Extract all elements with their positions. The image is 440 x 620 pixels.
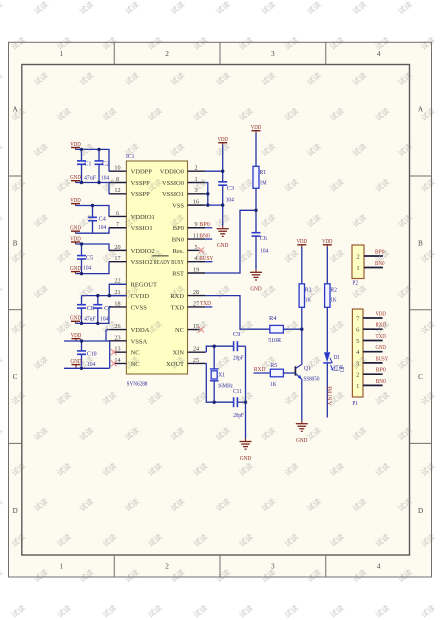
power port VDD (C3 rail)	[218, 136, 229, 145]
pin 26 VDDA (left)	[109, 323, 150, 334]
pin 12 VSSPP (left)	[109, 187, 150, 198]
net label TXD on pin 27	[200, 300, 212, 307]
wire load-cap ground rail	[245, 346, 247, 438]
inner border	[22, 65, 410, 556]
P1 pin 7 with net label VDD	[356, 310, 386, 322]
wire VDD rail to pin 6	[76, 206, 110, 217]
wire pin 2 to VDD rail	[205, 170, 223, 172]
wire D1 cathode with rotated net label BUSY	[326, 363, 333, 418]
power port VDD (group C4)	[70, 197, 81, 206]
P1 pin 3 with net label BUSY	[356, 355, 389, 367]
ground symbol (C6)	[250, 269, 262, 292]
pin 27 TXD (right)	[171, 300, 205, 311]
pin 25 XOUT (right)	[166, 357, 205, 368]
pin 28 RXD (right)	[170, 289, 205, 300]
wire R5 to Q1 base	[283, 372, 295, 374]
P1 pin 4 with net label GND	[356, 344, 386, 356]
power port GND (group C7/C8)	[70, 315, 81, 324]
connector P2 body	[352, 245, 364, 279]
wire VDD to R3	[301, 247, 303, 284]
wire VDD rail pin23/pin26	[64, 330, 110, 341]
wire VDD rail to pin 10	[76, 149, 110, 171]
resistor R5 1K	[270, 362, 283, 388]
junction dots crystal	[213, 345, 248, 404]
capacitor C10	[77, 341, 97, 368]
P1 pin 6 with net label RXD	[356, 322, 386, 334]
wire GND rail group 5	[64, 341, 110, 368]
wire GND rail to pin 7	[76, 228, 110, 233]
pin 8 VSSPP (left)	[109, 176, 150, 187]
wire pin 28 RXD to R4	[205, 296, 270, 330]
power port VDD (group C1/C2)	[70, 141, 81, 150]
connector P1 body	[352, 309, 363, 397]
wire Q1 emitter to ground	[301, 379, 303, 420]
capacitor C6	[252, 210, 270, 269]
capacitor C7	[93, 296, 111, 324]
pin 14 NC (left)	[111, 357, 140, 368]
crystal X1 16MHz	[210, 346, 233, 402]
wire pin 4 with net label BUSY	[199, 255, 213, 262]
junction dots C5	[80, 242, 83, 275]
pin 9 BP0 (right)	[173, 221, 205, 232]
capacitor C4	[88, 206, 107, 234]
wire pin 22 to CVDD rail	[109, 284, 126, 295]
wire GND rail to pin 18	[76, 307, 109, 323]
wire pin 9 with net label BP0	[199, 221, 212, 228]
wire pins 1/3 tie	[205, 183, 208, 206]
power port VDD (group C10)	[71, 332, 82, 341]
wire GND rail to pins 8 and 12	[76, 183, 110, 194]
pin 4 READY/BUSY (right)	[152, 255, 205, 266]
P2 pin 2 with net label BP0	[356, 248, 384, 260]
pin 13 NC (left)	[111, 346, 140, 357]
wire pin 11 with net label BN0	[199, 232, 212, 239]
capacitor C3	[218, 182, 234, 226]
pin 3 VSSIO1 (right)	[162, 187, 205, 198]
ground symbol (crystal caps)	[240, 439, 252, 462]
IC1 designator label	[126, 153, 134, 160]
junction dots group 1	[80, 148, 101, 185]
junction dot R1/C6/RST	[254, 209, 257, 212]
capacitor C11	[233, 388, 246, 419]
P2 designator	[352, 279, 358, 286]
wire VDD to R2	[326, 247, 328, 284]
pin 5 Res. (right)	[173, 244, 204, 255]
wire CVDD rail (pin 21)	[82, 295, 127, 297]
resistor R3 1K	[299, 284, 311, 308]
junction dot R3/R4/collector	[300, 328, 303, 331]
frame zone numbers and letters	[13, 50, 424, 571]
ground symbol (C3 rail)	[217, 226, 229, 249]
pin 19 RST (right)	[172, 266, 205, 277]
pin 2 VDDIO0 (right)	[160, 165, 205, 176]
wire VDD to R1	[255, 133, 257, 167]
junction dots C10	[80, 339, 83, 370]
pin 20 VDDIO2 (left)	[109, 244, 155, 255]
pin 22 REGOUT (left)	[109, 278, 157, 289]
capacitor C2	[95, 149, 110, 182]
capacitor C1	[77, 149, 96, 182]
capacitor C9	[233, 331, 246, 361]
pin 10 VDDPP (left)	[109, 165, 152, 176]
power port GND (group C5)	[70, 265, 81, 274]
power port VDD (R3)	[297, 238, 308, 247]
diode D1 LED red	[323, 352, 345, 372]
pin 23 VSSA (left)	[109, 334, 148, 345]
wire R4 to collector junction	[283, 328, 301, 330]
wire VDD down to C3	[222, 145, 224, 182]
ground symbol (Q1 emitter)	[296, 421, 308, 444]
power port VDD (R2)	[322, 238, 333, 247]
wire pin 24 XIN to crystal/C9	[205, 346, 234, 352]
wire pin 3 stub tie	[205, 193, 208, 195]
pin 24 XIN (right)	[172, 346, 205, 357]
power port GND (group C10)	[71, 358, 82, 368]
pin 21 CVDD (left)	[109, 289, 150, 300]
transistor Q1 SS8050	[295, 364, 319, 382]
op-amp U1 IC1 SYN6288 body	[126, 161, 187, 374]
capacitor C8	[77, 296, 96, 324]
junction dot C4 top	[91, 204, 94, 207]
wire VDD rail to pin 20	[76, 244, 110, 250]
net label RXD with wire to R5	[254, 366, 271, 373]
pin 7 VSSIO1 (left)	[109, 221, 153, 232]
wire R3 to collector junction	[301, 307, 303, 364]
pin 1 VSSIO0 (right)	[162, 176, 205, 187]
capacitor C5	[77, 244, 93, 274]
pin 11 BN0 (right)	[172, 232, 205, 243]
junction dots C3 rail	[206, 170, 224, 207]
resistor R1 1M	[253, 166, 267, 188]
pin 17 VSSIO2 (left)	[109, 255, 153, 266]
wire pin 16 to GND rail	[205, 204, 223, 206]
P1 pin 2 with net label BP0	[356, 367, 386, 379]
wire GND rail to pin 17	[76, 262, 110, 274]
pin 15 NC (right)	[175, 323, 204, 334]
SYN6288 part number label	[127, 381, 148, 388]
resistor R2 1K	[325, 284, 337, 308]
P2 pin 1 with net label BN0	[356, 260, 384, 272]
pin 6 VDDIO1 (left)	[109, 210, 155, 221]
pin 16 VSS (right)	[172, 199, 205, 210]
wire R2 to D1	[326, 307, 328, 352]
P1 designator	[352, 400, 358, 407]
P1 pin 5 with net label TXD	[356, 333, 386, 345]
P1 pin 1 with net label BN0	[356, 378, 386, 390]
power port VDD (group C5)	[70, 235, 81, 244]
wire R1 to junction	[255, 188, 257, 210]
wire junction to pin 19 RST	[205, 210, 256, 273]
power port GND (group C4)	[70, 225, 81, 234]
power port GND (group C1/C2)	[70, 174, 81, 182]
power port VDD (R1)	[251, 124, 262, 133]
junction dots group 4	[80, 294, 111, 325]
resistor R4 510R	[268, 315, 283, 344]
pin 18 CVSS (left)	[109, 300, 147, 311]
wire pin 25 XOUT to crystal/C11	[205, 363, 234, 402]
